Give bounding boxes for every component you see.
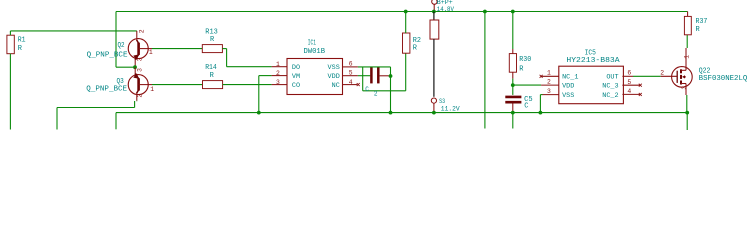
wire R14 to IC1 pin3 bbox=[223, 84, 272, 86]
wire R2 top to rail bbox=[405, 12, 407, 34]
svg-text:6: 6 bbox=[627, 70, 631, 77]
junction bbox=[483, 10, 487, 14]
svg-text:5: 5 bbox=[349, 70, 353, 77]
wire junction to IC5 VDD bbox=[513, 84, 541, 86]
resistor R30 bbox=[509, 54, 516, 73]
pin 2 VM bbox=[272, 75, 287, 77]
junction bbox=[404, 10, 408, 14]
wire IC5 VSS to bottom rail bbox=[540, 94, 542, 96]
svg-text:3: 3 bbox=[136, 68, 143, 72]
node R30 top on rail bbox=[511, 10, 515, 14]
resistor R13 bbox=[202, 45, 222, 53]
wire bottom-rail left stub bbox=[115, 113, 117, 130]
pin 1 DO bbox=[272, 66, 287, 68]
pin 4 NC bbox=[343, 84, 358, 86]
wire R30 to junction bbox=[512, 79, 514, 86]
svg-text:NC_1: NC_1 bbox=[562, 74, 578, 82]
svg-text:BSF030NE2LQ: BSF030NE2LQ bbox=[699, 75, 748, 83]
svg-text:2: 2 bbox=[547, 79, 551, 86]
svg-text:NC: NC bbox=[332, 82, 340, 90]
svg-text:VDD: VDD bbox=[328, 73, 340, 81]
node Q22 source on rail bbox=[685, 111, 689, 115]
svg-text:1: 1 bbox=[276, 61, 280, 68]
pin 6 VSS bbox=[343, 66, 358, 68]
svg-text:1: 1 bbox=[547, 70, 551, 77]
svg-text:4: 4 bbox=[349, 79, 353, 86]
pin-end circle S3 bbox=[431, 98, 436, 103]
svg-text:DO: DO bbox=[292, 64, 300, 72]
svg-text:2: 2 bbox=[374, 91, 378, 98]
node R30/C5/VDD bbox=[511, 83, 515, 87]
wire Q22 source to bottom rail bbox=[686, 95, 688, 113]
resistor R2 bbox=[403, 33, 410, 53]
wire IC1 VSS net bbox=[358, 66, 391, 68]
wire junction down to C5 bbox=[512, 85, 514, 95]
junction bbox=[389, 111, 393, 115]
resistor R37 bbox=[684, 16, 691, 34]
capacitor C5 bbox=[505, 96, 521, 99]
pin 4 NC_2 bbox=[622, 93, 640, 95]
pin 2 VDD bbox=[541, 84, 559, 86]
svg-text:CO: CO bbox=[292, 82, 300, 90]
svg-text:R1: R1 bbox=[18, 37, 26, 45]
no-connect X bbox=[357, 83, 360, 86]
svg-text:2: 2 bbox=[139, 29, 146, 33]
svg-text:R: R bbox=[210, 36, 215, 44]
pin 5 NC_3 bbox=[622, 84, 640, 86]
junction bbox=[389, 74, 393, 78]
wire Q2 base to R13 bbox=[152, 48, 202, 50]
wire bottom rail B- bbox=[116, 112, 688, 114]
wire R1 top to Q2 collector bbox=[9, 31, 11, 35]
svg-text:DW01B: DW01B bbox=[304, 48, 326, 56]
svg-text:3: 3 bbox=[276, 79, 280, 86]
pin 3 VSS bbox=[543, 94, 559, 96]
node C5 on rail bbox=[511, 111, 515, 115]
svg-text:IC1: IC1 bbox=[308, 40, 316, 48]
IC IC5 HY2213-B83A body bbox=[559, 66, 624, 104]
wire IC1 pin2 to bottom rail bbox=[259, 75, 272, 77]
svg-text:1: 1 bbox=[150, 86, 154, 93]
wire Q3 collector down-left to bottom stub bbox=[136, 100, 138, 103]
svg-text:Q2: Q2 bbox=[118, 42, 125, 50]
svg-text:2: 2 bbox=[137, 94, 144, 98]
pin 1 NC_1 bbox=[541, 75, 559, 77]
wire stub below rail bbox=[512, 113, 514, 129]
no-connect X bbox=[639, 84, 642, 87]
pin 6 OUT bbox=[622, 75, 633, 77]
wire R13 to IC1 pin1 bbox=[222, 48, 226, 50]
op-amp/IC IC1 DW01B body bbox=[287, 59, 343, 95]
svg-text:5: 5 bbox=[627, 79, 631, 86]
wire up to R2 bottom bbox=[405, 53, 407, 91]
wire OUT to Q22 gate bbox=[633, 75, 661, 77]
no-connect X bbox=[540, 75, 543, 78]
transistor Q22 (N-MOSFET) bbox=[661, 48, 693, 95]
transistor Q2 bbox=[128, 31, 152, 67]
svg-text:1: 1 bbox=[684, 55, 691, 59]
wire rail to R37 bbox=[687, 12, 689, 17]
svg-text:R: R bbox=[413, 44, 418, 52]
wire IC1 VDD to capacitor C2 bbox=[358, 75, 370, 77]
svg-text:2: 2 bbox=[276, 70, 280, 77]
fuse/series element body bbox=[433, 12, 435, 21]
junction bbox=[539, 111, 543, 115]
svg-text:HY2213-B83A: HY2213-B83A bbox=[566, 57, 620, 65]
svg-text:VM: VM bbox=[292, 73, 300, 81]
wire stub below rail right bbox=[686, 113, 688, 130]
svg-text:3: 3 bbox=[136, 57, 143, 61]
svg-text:4: 4 bbox=[627, 88, 631, 95]
svg-text:3: 3 bbox=[681, 86, 688, 90]
svg-text:C: C bbox=[524, 103, 528, 111]
pin 5 VDD bbox=[343, 75, 358, 77]
pin 3 CO bbox=[272, 84, 287, 86]
svg-text:C: C bbox=[365, 86, 369, 93]
svg-text:VSS: VSS bbox=[328, 64, 340, 72]
svg-text:R: R bbox=[18, 45, 23, 53]
svg-text:Q_PNP_BCE: Q_PNP_BCE bbox=[87, 52, 128, 60]
svg-text:NC_2: NC_2 bbox=[602, 92, 618, 100]
svg-text:VDD: VDD bbox=[562, 83, 574, 91]
no-connect X bbox=[639, 93, 642, 96]
svg-text:2: 2 bbox=[660, 70, 664, 77]
svg-text:R: R bbox=[210, 72, 215, 80]
wire R37 bottom to Q22 drain bbox=[686, 35, 688, 48]
wire R1 bottom stub bbox=[9, 54, 11, 130]
junction bbox=[133, 65, 137, 69]
wire VSS branch down to C2 row bbox=[362, 67, 364, 91]
pin-end circle above B+P+ bbox=[432, 0, 437, 4]
junction bbox=[432, 111, 436, 115]
svg-text:S3: S3 bbox=[439, 98, 445, 105]
black line to S3 bbox=[433, 39, 435, 97]
svg-text:14.8V: 14.8V bbox=[437, 6, 454, 13]
resistor R14 bbox=[203, 81, 223, 89]
svg-text:VSS: VSS bbox=[562, 92, 574, 100]
wire Q3 base to R14 bbox=[152, 84, 203, 86]
wire junction down to bottom rail bbox=[390, 76, 392, 113]
capacitor C2 bbox=[370, 68, 373, 84]
wire left vertical from top rail to Q2 emitter node bbox=[115, 12, 117, 68]
wire rail to R30 bbox=[512, 12, 514, 50]
svg-text:NC_3: NC_3 bbox=[602, 83, 618, 91]
junction bbox=[257, 111, 261, 115]
svg-text:1: 1 bbox=[149, 49, 153, 56]
wire top rail B+ bbox=[116, 11, 688, 13]
svg-text:Q_PNP_BCE: Q_PNP_BCE bbox=[86, 85, 127, 93]
svg-text:R: R bbox=[519, 65, 524, 73]
svg-text:OUT: OUT bbox=[606, 74, 618, 82]
resistor R1 bbox=[7, 35, 14, 54]
svg-text:11.2V: 11.2V bbox=[441, 106, 460, 113]
svg-text:3: 3 bbox=[547, 88, 551, 95]
svg-text:R37: R37 bbox=[696, 18, 708, 26]
svg-text:6: 6 bbox=[349, 61, 353, 68]
transistor Q3 bbox=[128, 67, 152, 101]
junction bbox=[432, 10, 436, 14]
svg-text:R: R bbox=[696, 26, 701, 34]
svg-text:R30: R30 bbox=[519, 56, 531, 64]
